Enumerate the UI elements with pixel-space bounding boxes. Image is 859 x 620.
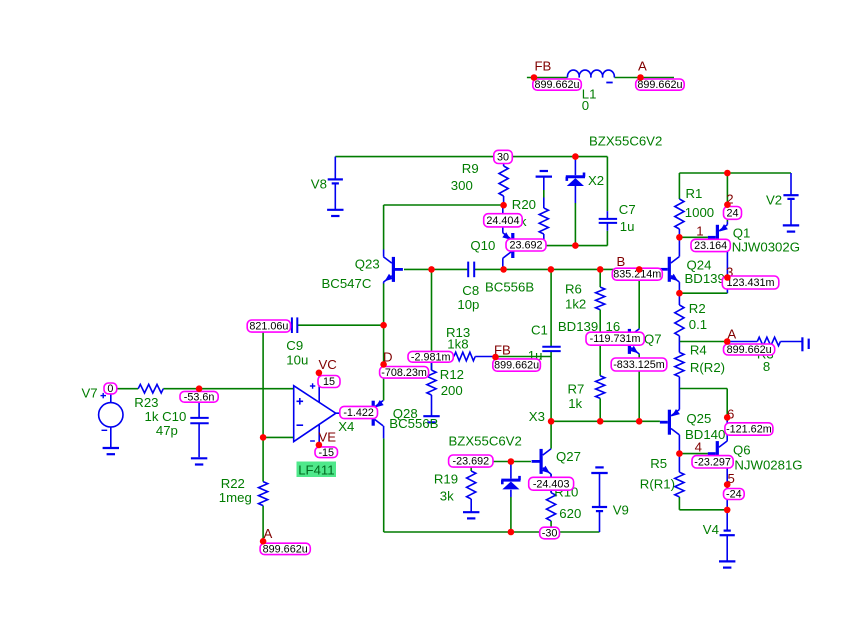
svg-text:FB: FB: [535, 59, 552, 74]
battery V9: [592, 473, 607, 511]
op-amp X4: [294, 373, 336, 445]
resistor R4: [675, 352, 684, 376]
svg-text:V8: V8: [311, 176, 327, 191]
svg-text:VC: VC: [319, 357, 338, 372]
node voltage bubble 821.06u: [247, 320, 290, 333]
svg-text:620: 620: [559, 506, 581, 521]
svg-text:-1.422: -1.422: [343, 407, 374, 419]
capacitor C1: [542, 347, 560, 351]
wire node 4: [679, 453, 708, 455]
svg-text:1: 1: [696, 224, 703, 239]
node voltage bubble 899.662u: [724, 344, 775, 356]
battery V8: [328, 157, 343, 210]
svg-text:3k: 3k: [440, 488, 454, 503]
resistor R3: [757, 337, 780, 346]
transistor Q27: [532, 449, 552, 474]
wire V9 bottom: [599, 511, 601, 532]
capacitor C10: [190, 418, 208, 423]
ground R12: [423, 416, 439, 422]
node voltage bubble -119.731m: [586, 332, 644, 345]
wire Q23 collector to R9/Q10 node: [384, 205, 504, 250]
resistor R7: [596, 376, 605, 399]
node voltage bubble 24.404: [484, 214, 523, 227]
transistor Q25: [660, 409, 680, 435]
transistor Q23: [383, 250, 403, 284]
svg-text:Q7: Q7: [644, 332, 662, 347]
resistor R13: [454, 352, 496, 361]
battery V2: [783, 173, 798, 225]
wire Q28 collector column: [383, 438, 385, 532]
svg-text:X4: X4: [338, 419, 354, 434]
svg-text:BC556B: BC556B: [389, 416, 438, 431]
resistor R2: [675, 305, 684, 336]
svg-text:47p: 47p: [156, 423, 178, 438]
svg-text:R(R2): R(R2): [690, 360, 725, 375]
svg-text:V7: V7: [82, 385, 98, 400]
wire L1 to A: [615, 77, 675, 79]
svg-text:1k2: 1k2: [565, 297, 586, 312]
node voltage bubble -24: [724, 489, 745, 501]
wire node -23.692: [471, 461, 531, 463]
transistor Q1: [708, 222, 728, 251]
transistor Q28: [364, 400, 384, 438]
svg-text:R6: R6: [565, 281, 582, 296]
node voltage bubble 23.164: [691, 239, 730, 252]
wire node 3: [726, 250, 728, 293]
svg-text:-2.981m: -2.981m: [411, 351, 451, 363]
wire op-amp minus input: [263, 436, 294, 438]
svg-text:R(R1): R(R1): [640, 477, 675, 492]
ground R19: [463, 512, 479, 518]
wire A row: [679, 341, 727, 343]
wire Q25 collector: [678, 435, 680, 454]
wire node6 branch: [679, 389, 727, 418]
wire node3 row: [679, 292, 727, 294]
svg-text:C7: C7: [619, 202, 636, 217]
node voltage bubble 835.214m: [612, 268, 662, 281]
svg-text:899.662u: 899.662u: [727, 344, 772, 356]
wire Q27 collector: [550, 421, 552, 448]
svg-text:BZX55C6V2: BZX55C6V2: [589, 133, 662, 148]
svg-text:1k8: 1k8: [447, 337, 468, 352]
svg-text:123.431m: 123.431m: [727, 277, 775, 289]
wire Q6 collector: [726, 417, 728, 441]
svg-text:NJW0281G: NJW0281G: [734, 457, 802, 472]
resistor R1: [675, 199, 684, 229]
svg-text:VE: VE: [319, 430, 337, 445]
node voltage bubble -833.125m: [611, 358, 667, 371]
svg-text:R5: R5: [650, 456, 667, 471]
node voltage bubble 899.662u: [493, 359, 541, 372]
ground R3: [802, 337, 808, 351]
svg-text:Q10: Q10: [470, 238, 495, 253]
wire C10 column: [198, 389, 200, 458]
svg-text:V9: V9: [613, 502, 629, 517]
node voltage bubble 23.692: [506, 239, 546, 252]
svg-text:23.692: 23.692: [509, 240, 542, 252]
svg-text:R9: R9: [462, 161, 479, 176]
svg-text:R1: R1: [686, 186, 703, 201]
wire R20 top: [543, 190, 545, 198]
wire V2 rail: [679, 172, 791, 174]
transistor Q24: [660, 257, 680, 282]
ground R20 top: [536, 171, 552, 190]
svg-text:1u: 1u: [620, 219, 635, 234]
wire C7 branch: [606, 157, 608, 246]
svg-text:X3: X3: [529, 409, 545, 424]
svg-text:B: B: [617, 254, 626, 269]
svg-text:Q1: Q1: [733, 225, 751, 240]
wire Q23 base to C8: [404, 268, 468, 270]
svg-text:-119.731m: -119.731m: [590, 333, 641, 345]
wire V7 to R23: [117, 388, 138, 390]
svg-text:0: 0: [582, 98, 589, 113]
svg-text:10u: 10u: [286, 353, 308, 368]
wire Q7 base: [600, 340, 620, 342]
svg-text:R12: R12: [440, 367, 464, 382]
node voltage bubble -2.981m: [408, 351, 453, 363]
node voltage bubble 123.431m: [722, 276, 779, 289]
wire R5 leads: [678, 454, 680, 510]
svg-text:R7: R7: [568, 381, 585, 396]
svg-text:300: 300: [451, 178, 473, 193]
svg-text:BC547C: BC547C: [322, 276, 372, 291]
wire R10 bottom: [550, 521, 552, 532]
svg-text:899.662u: 899.662u: [535, 79, 580, 91]
node voltage bubble -53.6n: [180, 391, 218, 403]
battery V4: [720, 531, 735, 562]
wire R3 to ground: [780, 341, 802, 343]
ground V7: [103, 448, 119, 454]
node voltage bubble -24.403: [529, 477, 574, 490]
node voltage bubble -30: [540, 527, 560, 539]
node voltage bubble -15: [315, 447, 338, 459]
wire Q6 emitter: [726, 466, 728, 510]
svg-text:BC556B: BC556B: [485, 279, 534, 294]
wire zener branch: [510, 462, 512, 533]
svg-text:-121.62m: -121.62m: [726, 424, 772, 436]
svg-text:R20: R20: [512, 197, 536, 212]
zener diode X2: [566, 173, 585, 187]
svg-text:200: 200: [441, 383, 463, 398]
svg-text:LF411: LF411: [298, 462, 334, 477]
node voltage bubble 24: [724, 207, 742, 220]
resistor R10: [547, 474, 556, 521]
capacitor C8: [468, 262, 474, 278]
wire R2 leads: [678, 293, 680, 341]
svg-text:10p: 10p: [457, 297, 479, 312]
wire V4 top: [726, 510, 728, 531]
node voltage bubble 30: [494, 150, 513, 163]
svg-text:-833.125m: -833.125m: [613, 359, 665, 371]
svg-text:-15: -15: [318, 447, 334, 459]
svg-text:Q6: Q6: [733, 442, 751, 457]
svg-text:899.662u: 899.662u: [637, 79, 682, 91]
svg-text:1meg: 1meg: [219, 490, 252, 505]
svg-text:899.662u: 899.662u: [263, 543, 308, 555]
svg-text:1k C10: 1k C10: [145, 409, 187, 424]
svg-text:R23: R23: [134, 395, 158, 410]
svg-text:V2: V2: [766, 193, 782, 208]
wire A to R3: [727, 341, 757, 343]
wire X2 branch: [574, 157, 576, 246]
svg-text:15: 15: [323, 376, 335, 388]
svg-text:1k: 1k: [568, 396, 582, 411]
svg-text:BZX55C6V2: BZX55C6V2: [449, 433, 522, 448]
resistor R22: [259, 482, 268, 506]
capacitor C9: [292, 317, 297, 333]
svg-text:NJW0302G: NJW0302G: [732, 240, 800, 255]
wire node 23.692: [514, 245, 607, 247]
capacitor C7: [599, 211, 617, 231]
green component labels: [82, 86, 803, 537]
wire R12 top column: [431, 269, 433, 370]
wire Q24 collector: [678, 237, 680, 256]
wire R6 R7 column: [599, 269, 601, 421]
svg-text:R4: R4: [690, 343, 707, 358]
wire Q24 emitter: [678, 282, 680, 293]
wire Q7 emitter: [638, 354, 640, 421]
wire op-amp output: [336, 412, 371, 414]
svg-text:24: 24: [726, 207, 738, 219]
wire R19 top: [470, 462, 472, 472]
ground V4: [719, 561, 735, 567]
wire Q23 emitter column: [383, 284, 385, 326]
svg-text:Q25: Q25: [686, 411, 711, 426]
wire Q25 emitter: [678, 389, 680, 410]
resistor R6: [596, 287, 605, 310]
node voltage bubble -23.297: [692, 456, 733, 469]
wire FB node to C1: [496, 356, 552, 358]
node voltage bubble 899.662u: [533, 79, 582, 91]
ground V9 top: [591, 467, 607, 473]
node voltage bubble -121.62m: [725, 423, 773, 436]
wire FB to L1: [527, 77, 568, 79]
ground V2: [783, 225, 799, 231]
svg-text:A: A: [638, 59, 647, 74]
wire R23 to op-amp plus: [163, 388, 293, 390]
svg-text:821.06u: 821.06u: [249, 321, 288, 333]
svg-text:C1: C1: [531, 322, 548, 337]
svg-text:0.1: 0.1: [689, 317, 707, 332]
wire node 2: [726, 173, 728, 222]
wire R22 column: [262, 437, 264, 541]
wire Q27 emitter: [550, 474, 552, 493]
svg-text:C8: C8: [462, 283, 479, 298]
svg-text:X2: X2: [588, 173, 604, 188]
wire -30 rail: [384, 531, 600, 533]
svg-text:Q27: Q27: [556, 449, 581, 464]
node name labels: [264, 59, 737, 541]
svg-text:-24: -24: [726, 489, 742, 501]
wire R1 top: [678, 173, 680, 199]
resistor R20: [539, 198, 548, 246]
zener diode X3: [501, 476, 520, 490]
node voltage bubble -1.422: [340, 406, 378, 419]
svg-text:BD140: BD140: [685, 427, 725, 442]
wire R13 to FB node: [432, 356, 454, 358]
svg-text:-30: -30: [542, 528, 558, 540]
wire C1 column: [550, 269, 552, 421]
svg-text:Q23: Q23: [355, 257, 380, 272]
wire +30 rail: [335, 156, 607, 158]
node voltage bubble 15: [318, 376, 340, 389]
node voltage bubble 0: [104, 383, 117, 395]
svg-text:R2: R2: [689, 301, 706, 316]
svg-text:V4: V4: [703, 522, 719, 537]
svg-text:8: 8: [763, 359, 770, 374]
resistor R12: [427, 357, 436, 416]
svg-text:-23.692: -23.692: [452, 456, 489, 468]
svg-text:23.164: 23.164: [694, 240, 727, 252]
wire Q7 collector: [638, 269, 640, 328]
transistor Q10: [502, 205, 522, 269]
svg-text:BD139: BD139: [685, 271, 725, 286]
svg-text:899.662u: 899.662u: [494, 360, 539, 372]
wire C8 to B node: [474, 268, 661, 270]
wire R4 leads: [678, 342, 680, 389]
wire C9 to D node: [298, 325, 384, 364]
svg-text:-708.23m: -708.23m: [381, 367, 427, 379]
transistor Q6: [708, 441, 728, 466]
svg-text:30: 30: [497, 151, 509, 163]
node voltage bubble 899.662u: [636, 79, 685, 91]
svg-text:-23.297: -23.297: [694, 456, 731, 468]
node voltage bubble 899.662u: [260, 543, 310, 555]
svg-text:C9: C9: [286, 338, 303, 353]
wire D to Q28 emitter: [383, 364, 385, 400]
svg-text:R19: R19: [434, 472, 458, 487]
svg-text:4: 4: [695, 440, 702, 455]
wire R5 bottom row: [679, 509, 727, 511]
resistor R19: [467, 471, 476, 512]
inductor L1: [567, 70, 614, 82]
wire C9 left column: [263, 325, 292, 437]
ground C10: [191, 458, 207, 464]
node voltage bubble -23.692: [449, 455, 493, 468]
svg-text:0: 0: [107, 383, 113, 395]
resistor R9: [499, 157, 508, 205]
svg-text:-53.6n: -53.6n: [184, 391, 215, 403]
svg-text:-24.403: -24.403: [533, 478, 570, 490]
ground V8: [327, 210, 343, 216]
node voltage bubble -708.23m: [380, 367, 429, 379]
wire node 1: [679, 236, 708, 238]
label LF411: [297, 462, 337, 478]
svg-text:24.404: 24.404: [486, 215, 519, 227]
svg-text:1000: 1000: [685, 205, 714, 220]
resistor R5: [675, 472, 684, 497]
source V7: [99, 393, 123, 448]
wire X3 row: [551, 420, 660, 422]
resistor R23: [138, 384, 163, 393]
transistor Q7: [620, 329, 640, 354]
wire R1 bottom: [678, 229, 680, 237]
